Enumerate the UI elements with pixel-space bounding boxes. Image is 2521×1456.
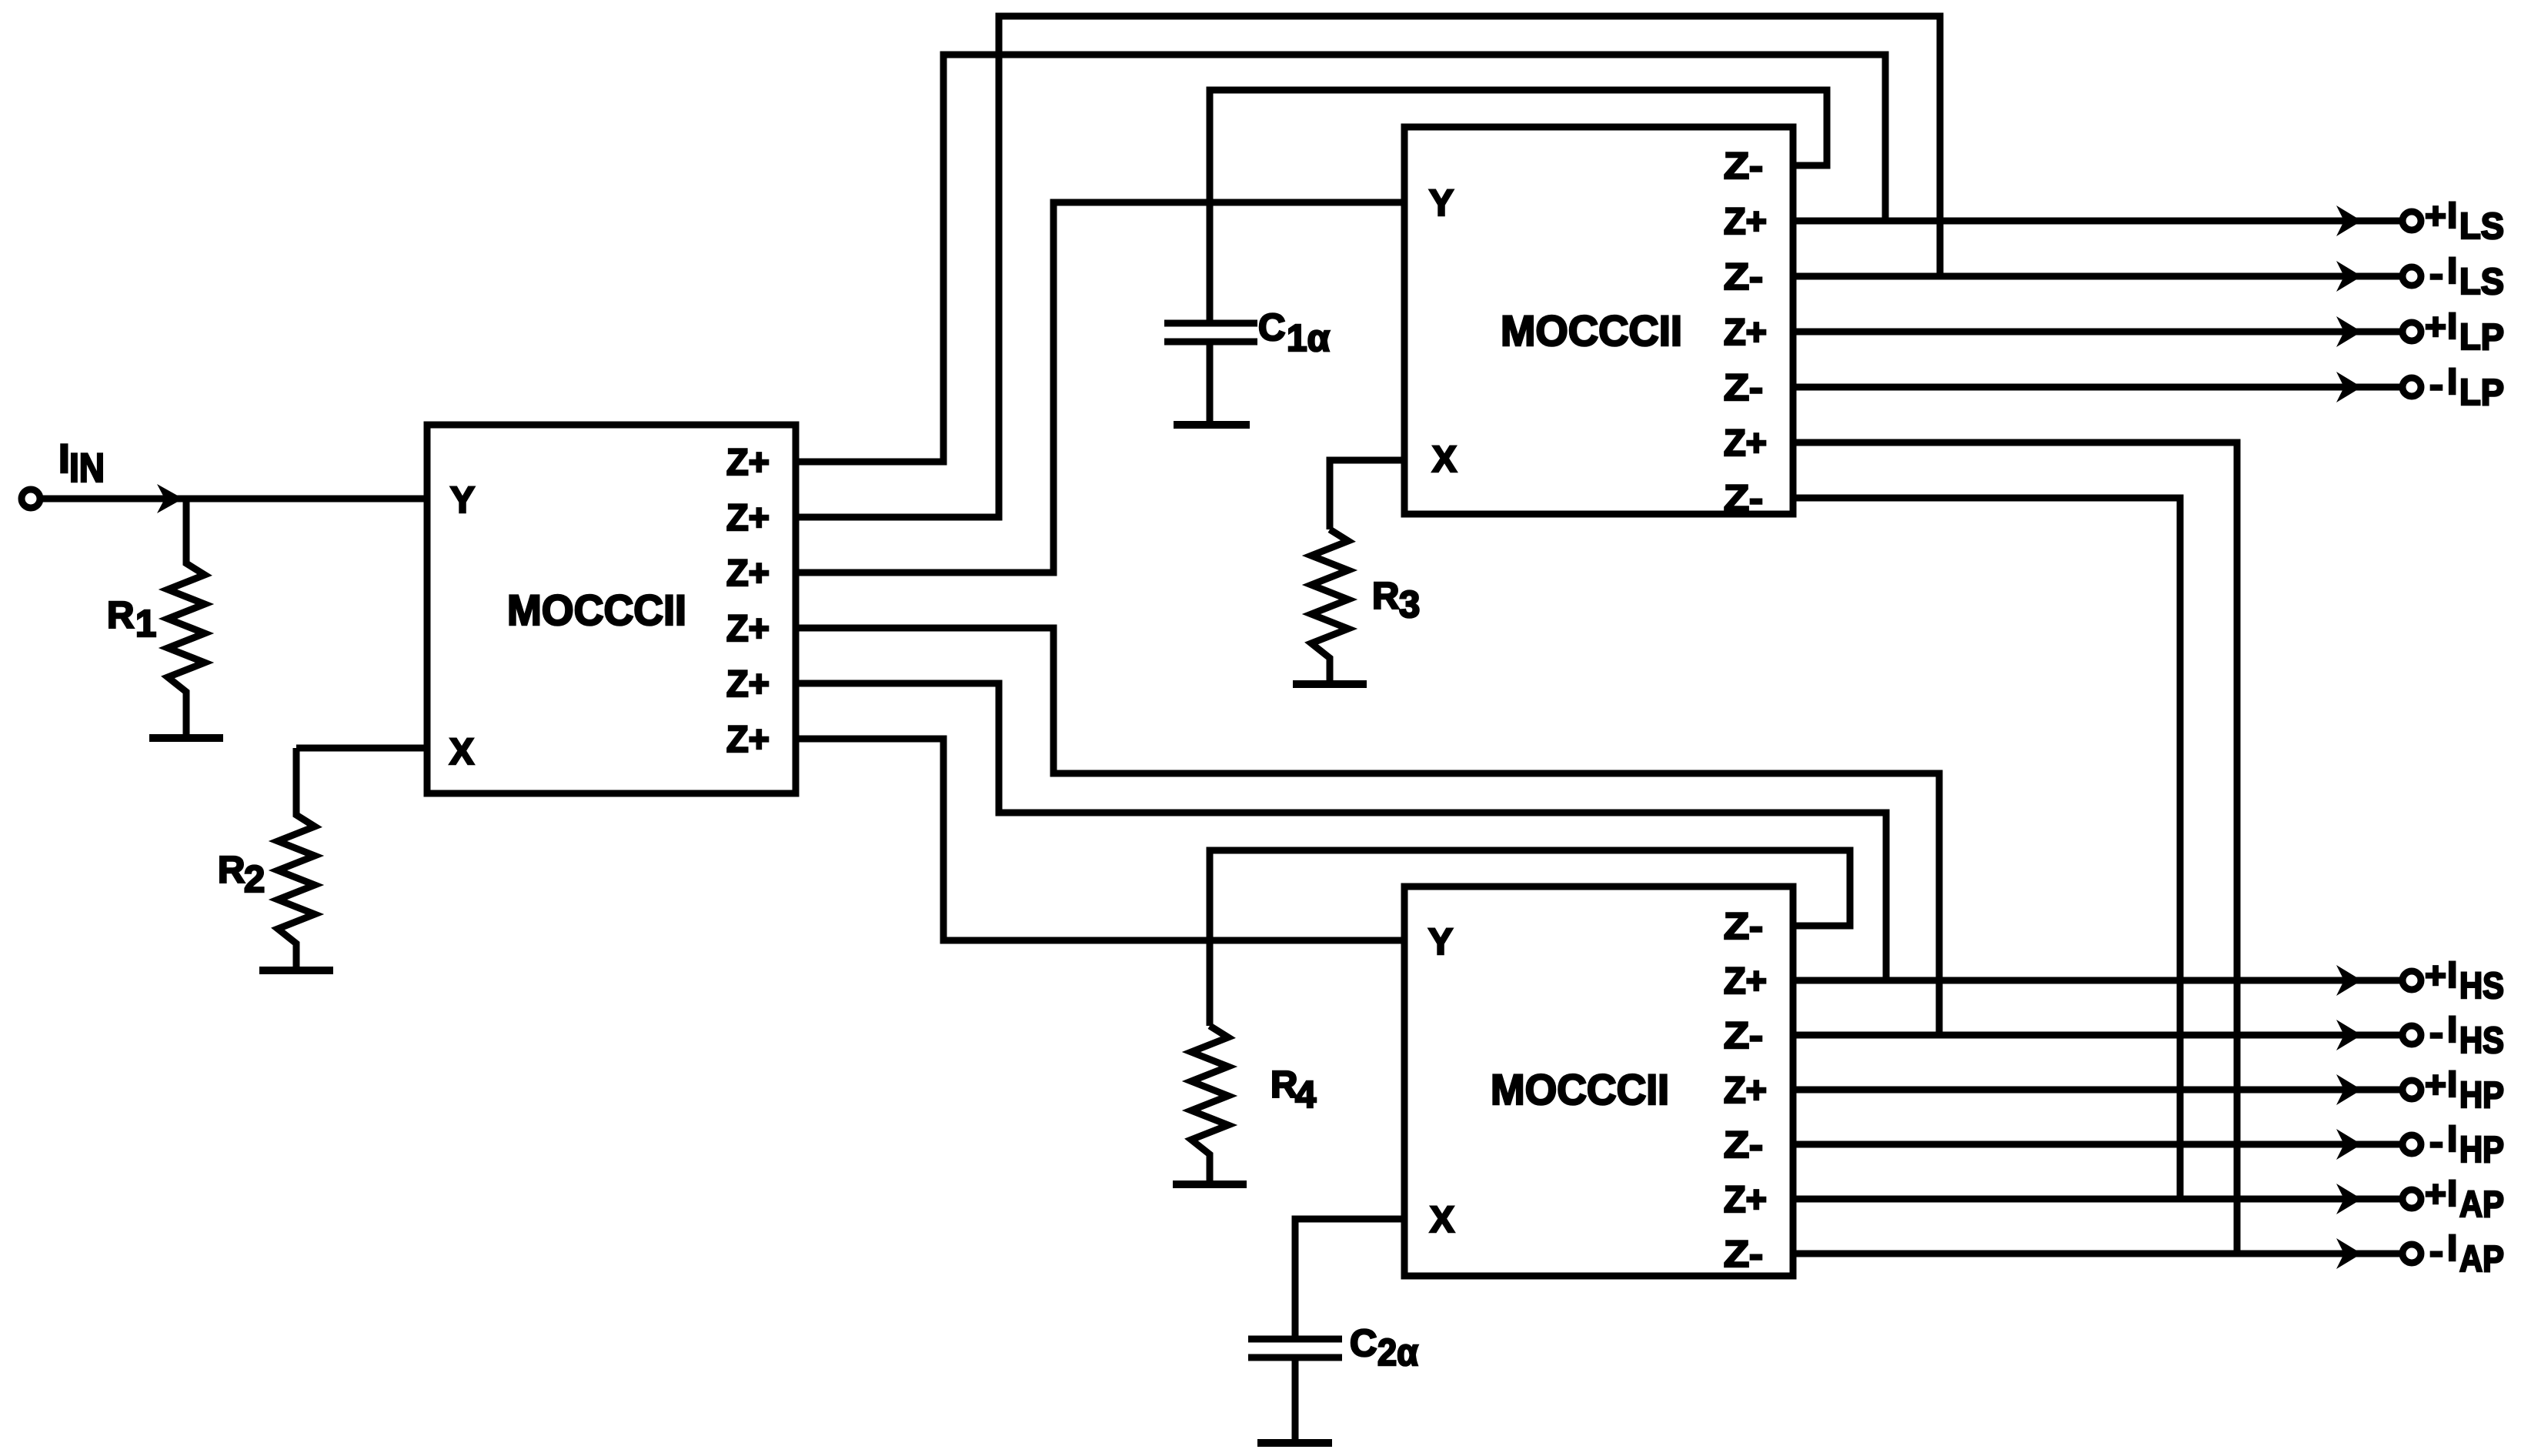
svg-text:LP: LP bbox=[2459, 317, 2504, 358]
ground R3 bbox=[1293, 680, 1367, 688]
wire U2 Z-1 feedback to Y node bbox=[1210, 90, 1827, 323]
label C2a bbox=[1350, 1323, 1418, 1374]
svg-text:I: I bbox=[2447, 1010, 2457, 1050]
svg-text:HS: HS bbox=[2459, 966, 2504, 1007]
label +ILS bbox=[2425, 195, 2504, 247]
svg-text:X: X bbox=[449, 732, 474, 773]
ground C2a bbox=[1257, 1439, 1332, 1447]
op-amp block U1 MOCCCII bbox=[427, 425, 796, 793]
svg-text:1α: 1α bbox=[1287, 318, 1330, 359]
pin label U1 Z+ #3 bbox=[726, 553, 770, 594]
arrow output +ILS bbox=[2336, 205, 2362, 236]
resistor R3 bbox=[1311, 529, 1348, 680]
arrow output +IAP bbox=[2336, 1184, 2362, 1214]
svg-text:Z-: Z- bbox=[1724, 1016, 1763, 1057]
svg-text:X: X bbox=[1432, 439, 1457, 480]
svg-text:2: 2 bbox=[244, 859, 265, 900]
wire U3 X to C2a bbox=[1295, 1219, 1404, 1339]
arrow output +IHP bbox=[2336, 1074, 2362, 1105]
svg-text:-: - bbox=[2429, 1231, 2443, 1272]
wire output -IAP bbox=[1793, 1251, 2400, 1257]
arrow output -IHP bbox=[2336, 1129, 2362, 1160]
op-amp block U2 MOCCCII bbox=[1404, 127, 1793, 514]
svg-text:-: - bbox=[2429, 1013, 2443, 1054]
svg-text:Z+: Z+ bbox=[1724, 202, 1767, 242]
svg-text:Z-: Z- bbox=[1724, 368, 1763, 409]
svg-text:C: C bbox=[1258, 307, 1285, 349]
pin label U1 X bbox=[449, 732, 474, 773]
svg-text:X: X bbox=[1430, 1200, 1454, 1241]
pin label U1 Z+ #2 bbox=[726, 498, 770, 539]
pin label U3 Z+ #4 bbox=[1724, 1070, 1767, 1111]
pin label U2 Z- #7 bbox=[1724, 479, 1763, 519]
label -ILP bbox=[2429, 362, 2504, 413]
ground C1a bbox=[1174, 421, 1250, 429]
wire output -IHP bbox=[1793, 1141, 2400, 1148]
svg-text:I: I bbox=[2447, 1064, 2457, 1105]
svg-text:I: I bbox=[2447, 955, 2457, 996]
svg-text:Z+: Z+ bbox=[726, 664, 770, 705]
pin label U3 Z+ #6 bbox=[1724, 1180, 1767, 1221]
svg-text:-: - bbox=[2429, 254, 2443, 295]
arrow input current direction bbox=[157, 484, 183, 513]
arrow output -ILP bbox=[2336, 372, 2362, 402]
svg-text:I: I bbox=[58, 436, 70, 482]
label U3 MOCCCII bbox=[1491, 1065, 1669, 1114]
svg-text:R: R bbox=[107, 595, 134, 636]
pin label U3 Z+ #2 bbox=[1724, 961, 1767, 1002]
svg-text:+: + bbox=[2425, 1065, 2446, 1106]
svg-text:AP: AP bbox=[2459, 1239, 2504, 1280]
resistor R4 bbox=[1191, 1026, 1228, 1180]
terminal +ILP bbox=[2402, 322, 2421, 341]
svg-text:-: - bbox=[2429, 1122, 2443, 1163]
svg-text:MOCCCII: MOCCCII bbox=[1491, 1065, 1669, 1114]
svg-text:R: R bbox=[1271, 1064, 1297, 1106]
wire output +IHS bbox=[1793, 977, 2400, 984]
svg-text:Z+: Z+ bbox=[726, 498, 770, 539]
wire output +IAP bbox=[1793, 1196, 2400, 1203]
svg-text:+: + bbox=[2425, 1174, 2446, 1215]
svg-text:HP: HP bbox=[2459, 1075, 2504, 1116]
svg-text:Z+: Z+ bbox=[1724, 312, 1767, 353]
svg-text:Z-: Z- bbox=[1724, 257, 1763, 298]
arrow output -IAP bbox=[2336, 1238, 2362, 1269]
terminal -ILP bbox=[2402, 378, 2421, 396]
svg-text:-: - bbox=[2429, 365, 2443, 406]
pin label U3 Z- #3 bbox=[1724, 1016, 1763, 1057]
capacitor C2a bbox=[1248, 1339, 1342, 1357]
svg-text:Z-: Z- bbox=[1724, 479, 1763, 519]
arrow output +IHS bbox=[2336, 965, 2362, 996]
ground R4 bbox=[1173, 1180, 1247, 1188]
svg-text:C: C bbox=[1350, 1323, 1377, 1364]
label U2 MOCCCII bbox=[1501, 306, 1682, 355]
wire output -IHS bbox=[1793, 1032, 2400, 1039]
wire output -ILP bbox=[1793, 384, 2400, 391]
svg-text:2α: 2α bbox=[1377, 1332, 1418, 1374]
svg-text:I: I bbox=[2447, 1119, 2457, 1160]
svg-text:LS: LS bbox=[2459, 206, 2504, 247]
pin label U2 X bbox=[1432, 439, 1457, 480]
pin label U2 Z- #1 bbox=[1724, 146, 1763, 187]
svg-text:MOCCCII: MOCCCII bbox=[507, 586, 686, 634]
pin label U1 Z+ #5 bbox=[726, 664, 770, 705]
pin label U1 Y bbox=[450, 480, 475, 521]
wire input to Y of U1 bbox=[40, 496, 427, 503]
resistor R2 bbox=[278, 748, 315, 967]
wire U2 Z-7 to +IAP node bbox=[1793, 498, 2180, 1199]
svg-text:Z+: Z+ bbox=[1724, 961, 1767, 1002]
wire U1 Z+2 via top to -ILS node bbox=[796, 16, 1940, 517]
svg-text:Z+: Z+ bbox=[726, 553, 770, 594]
wire output +ILP bbox=[1793, 329, 2400, 336]
wire U1 X stub bbox=[296, 745, 427, 752]
svg-text:IN: IN bbox=[69, 446, 105, 491]
svg-text:I: I bbox=[2447, 362, 2457, 402]
svg-text:Z-: Z- bbox=[1724, 907, 1763, 947]
wire C1a lower lead bbox=[1207, 342, 1214, 425]
svg-text:Z+: Z+ bbox=[726, 609, 770, 650]
svg-text:R: R bbox=[1372, 576, 1399, 617]
label -IAP bbox=[2429, 1228, 2504, 1280]
wire U2 Z+6 to -IAP node bbox=[1793, 442, 2237, 1254]
wire U1 Z+3 to Y of U2 bbox=[796, 202, 1404, 573]
pin label U3 Z- #5 bbox=[1724, 1125, 1763, 1166]
wire C2a lower lead bbox=[1292, 1357, 1299, 1443]
pin label U2 Z+ #4 bbox=[1724, 312, 1767, 353]
pin label U3 Z- #1 bbox=[1724, 907, 1763, 947]
arrow output -IHS bbox=[2336, 1020, 2362, 1050]
pin label U2 Y bbox=[1429, 183, 1454, 224]
pin label U2 Z+ #2 bbox=[1724, 202, 1767, 242]
terminal -IAP bbox=[2402, 1244, 2421, 1263]
resistor R1 bbox=[168, 499, 205, 734]
terminal -IHS bbox=[2402, 1026, 2421, 1044]
svg-text:I: I bbox=[2447, 251, 2457, 292]
wire output -ILS bbox=[1793, 273, 2400, 280]
label -ILS bbox=[2429, 251, 2504, 302]
label -IHP bbox=[2429, 1119, 2504, 1170]
label +IHS bbox=[2425, 955, 2504, 1007]
pin label U1 Z+ #1 bbox=[726, 442, 770, 483]
svg-text:Z+: Z+ bbox=[1724, 1070, 1767, 1111]
wire U1 Z+5 to +IHS node bbox=[796, 683, 1886, 980]
svg-text:1: 1 bbox=[135, 603, 156, 645]
wire U1 Z+4 to -IHS node bbox=[796, 628, 1939, 1035]
svg-text:I: I bbox=[2447, 306, 2457, 347]
terminal +ILS bbox=[2402, 212, 2421, 230]
svg-text:Z-: Z- bbox=[1724, 146, 1763, 187]
svg-text:+: + bbox=[2425, 196, 2446, 237]
terminal -IHP bbox=[2402, 1135, 2421, 1154]
svg-text:Z-: Z- bbox=[1724, 1125, 1763, 1166]
label +ILP bbox=[2425, 306, 2504, 358]
pin label U2 Z- #3 bbox=[1724, 257, 1763, 298]
svg-text:Y: Y bbox=[1429, 183, 1454, 224]
svg-text:Y: Y bbox=[1428, 922, 1453, 963]
label IIN bbox=[58, 436, 105, 491]
pin label U3 X bbox=[1430, 1200, 1454, 1241]
label U1 MOCCCII bbox=[507, 586, 686, 634]
op-amp block U3 MOCCCII bbox=[1404, 887, 1793, 1276]
arrow output +ILP bbox=[2336, 316, 2362, 347]
svg-text:Z+: Z+ bbox=[1724, 423, 1767, 464]
svg-text:I: I bbox=[2447, 195, 2457, 236]
wire output +IHP bbox=[1793, 1087, 2400, 1094]
label +IHP bbox=[2425, 1064, 2504, 1116]
wire output +ILS bbox=[1793, 218, 2400, 225]
wire U3 Z-1 feedback to Y node bbox=[1210, 850, 1850, 1026]
label R3 bbox=[1372, 576, 1420, 626]
label R4 bbox=[1271, 1064, 1316, 1116]
label R2 bbox=[218, 850, 265, 900]
svg-text:HS: HS bbox=[2459, 1020, 2504, 1061]
svg-text:Z+: Z+ bbox=[726, 720, 770, 760]
svg-text:Y: Y bbox=[450, 480, 475, 521]
wire U2 X to R3 bbox=[1330, 460, 1404, 529]
pin label U3 Y bbox=[1428, 922, 1453, 963]
svg-text:+: + bbox=[2425, 307, 2446, 348]
label +IAP bbox=[2425, 1174, 2504, 1225]
label -IHS bbox=[2429, 1010, 2504, 1061]
wire U1 Z+6 to Y of U3 bbox=[796, 739, 1404, 940]
svg-text:4: 4 bbox=[1295, 1074, 1316, 1116]
pin label U2 Z+ #6 bbox=[1724, 423, 1767, 464]
svg-text:MOCCCII: MOCCCII bbox=[1501, 306, 1682, 355]
svg-text:+: + bbox=[2425, 956, 2446, 997]
ground R1 bbox=[149, 734, 223, 742]
terminal +IHS bbox=[2402, 971, 2421, 990]
svg-text:LS: LS bbox=[2459, 262, 2504, 302]
svg-text:3: 3 bbox=[1399, 584, 1420, 626]
svg-text:Z+: Z+ bbox=[1724, 1180, 1767, 1221]
pin label U1 Z+ #6 bbox=[726, 720, 770, 760]
terminal -ILS bbox=[2402, 267, 2421, 286]
terminal +IAP bbox=[2402, 1190, 2421, 1208]
arrow output -ILS bbox=[2336, 261, 2362, 292]
ground R2 bbox=[259, 967, 333, 974]
svg-text:R: R bbox=[218, 850, 245, 891]
svg-text:LP: LP bbox=[2459, 372, 2504, 413]
svg-text:Z+: Z+ bbox=[726, 442, 770, 483]
svg-text:I: I bbox=[2447, 1174, 2457, 1214]
capacitor C1a bbox=[1164, 323, 1257, 342]
svg-text:I: I bbox=[2447, 1228, 2457, 1269]
svg-text:HP: HP bbox=[2459, 1130, 2504, 1170]
svg-text:Z-: Z- bbox=[1724, 1234, 1763, 1275]
pin label U3 Z- #7 bbox=[1724, 1234, 1763, 1275]
pin label U2 Z- #5 bbox=[1724, 368, 1763, 409]
svg-text:AP: AP bbox=[2459, 1184, 2504, 1225]
label C1a bbox=[1258, 307, 1330, 359]
pin label U1 Z+ #4 bbox=[726, 609, 770, 650]
input terminal IIN bbox=[22, 489, 40, 508]
label R1 bbox=[107, 595, 156, 645]
wire U1 Z+1 via top to +ILS node bbox=[796, 55, 1885, 462]
terminal +IHP bbox=[2402, 1080, 2421, 1099]
